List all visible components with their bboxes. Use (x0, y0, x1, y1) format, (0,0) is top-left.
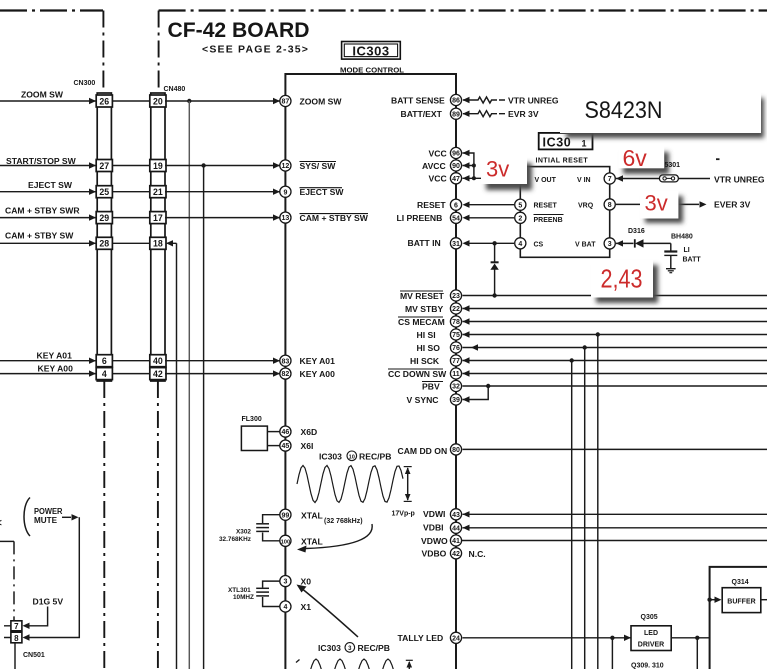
svg-text:43: 43 (452, 512, 460, 519)
connector CN300 pin 29 (96, 212, 112, 224)
svg-text:IC303: IC303 (318, 643, 341, 653)
svg-text:CN480: CN480 (164, 86, 186, 93)
pin 24 TALLY LED (398, 632, 462, 643)
label EVR 3V net (508, 109, 539, 119)
IC301 pin 7 V IN (604, 173, 615, 184)
wire CAM + STBY SWR row (0, 214, 280, 220)
svg-text:13: 13 (282, 215, 290, 222)
curved arrow to pin 100 (297, 524, 372, 553)
label 32 768kHz (324, 518, 363, 525)
label EJECT SW (28, 180, 73, 190)
svg-text:6: 6 (454, 202, 458, 209)
IC301 inner label PREENB overlined (534, 215, 564, 224)
waveform sine at XTAL (297, 466, 403, 503)
svg-text:31: 31 (452, 241, 460, 248)
wire CAM DD ON row (463, 448, 767, 450)
annotation patch 2,43 (591, 260, 658, 303)
annotation patch S8423N (560, 92, 764, 138)
svg-text:29: 29 (99, 213, 109, 223)
svg-text:2: 2 (518, 215, 522, 222)
svg-text:LED: LED (644, 630, 658, 637)
svg-text:AVCC: AVCC (422, 161, 446, 171)
ground at battery (666, 269, 676, 273)
svg-text:RESET: RESET (417, 200, 446, 210)
IC301 pin 3 V BAT (604, 238, 615, 249)
svg-text:4: 4 (102, 369, 107, 379)
svg-text:CS: CS (534, 242, 544, 249)
svg-text:CN501: CN501 (23, 652, 45, 659)
svg-text:VCC: VCC (429, 148, 447, 158)
wire POWER MUTE drop to CN501 pin 8 (23, 517, 80, 640)
connector CN300 pin 26 (96, 95, 112, 107)
pin 96 VCC (429, 147, 470, 158)
wire drop from TALLY junction 1 (611, 638, 613, 669)
svg-text:10: 10 (349, 454, 355, 460)
wire fuse to VTR UNREG (678, 178, 710, 180)
wire left edge to dashed drop (0, 540, 14, 542)
wire HI SCK row (463, 357, 767, 363)
IC301 inner label VRQ (578, 203, 594, 210)
wire MV STBY row (463, 305, 767, 311)
pin 99 XTAL (280, 509, 323, 520)
connector CN480 pin 21 (150, 186, 166, 198)
annotation patch 3v at V OUT (481, 157, 532, 191)
pin 100 XTAL (280, 535, 323, 546)
pin 46 X6D (280, 426, 317, 437)
label KEY A00 (38, 364, 74, 374)
svg-text:SYS/ SW: SYS/ SW (300, 161, 337, 171)
svg-text:10MHZ: 10MHZ (233, 594, 254, 601)
connector CN300 pin 4 (96, 368, 112, 380)
svg-text:PREENB: PREENB (534, 217, 563, 224)
svg-text:IC303: IC303 (319, 452, 342, 462)
wire bus drop from HI SO (584, 348, 586, 669)
svg-text:100: 100 (281, 539, 291, 545)
arrow from REC/PB note to pin 3 (297, 585, 359, 638)
svg-text:HI SO: HI SO (417, 343, 441, 353)
svg-text:FL300: FL300 (242, 416, 262, 423)
wire into BUFFER (710, 597, 722, 603)
wire IC301 pin2 to IC303 pin54 (470, 217, 515, 219)
connector CN501 pin 7 (11, 621, 22, 631)
svg-text:VTR UNREG: VTR UNREG (508, 95, 559, 105)
svg-text:V SYNC: V SYNC (407, 395, 439, 405)
svg-text:40: 40 (153, 356, 163, 366)
pin 9 EJECT SW (280, 186, 345, 197)
diode D317 between CS line and MV RESET line (490, 243, 498, 295)
svg-text:EJECT SW: EJECT SW (300, 187, 345, 197)
svg-text:D1G 5V: D1G 5V (33, 597, 64, 607)
IC303 designator box (342, 42, 401, 60)
svg-text:8: 8 (14, 634, 19, 643)
wire below CN501 (14, 643, 16, 669)
resistor at BATT SENSE (463, 97, 505, 103)
label Q314 (732, 579, 749, 586)
connector CN501 pin 8 (11, 632, 22, 643)
svg-text:4: 4 (283, 604, 287, 611)
wire CC DOWN SW row (463, 370, 767, 376)
svg-text:3: 3 (283, 579, 287, 586)
svg-text:CN300: CN300 (74, 80, 96, 87)
wire DIG 5V to CN501 pin 7 (23, 607, 48, 630)
svg-text:VDBI: VDBI (423, 523, 444, 533)
connector CN300 label (74, 80, 96, 87)
svg-text:V BAT: V BAT (575, 242, 596, 249)
svg-text:21: 21 (153, 187, 163, 197)
svg-text:VDBO: VDBO (422, 549, 447, 559)
svg-text:CAM + STBY SW: CAM + STBY SW (5, 231, 74, 241)
svg-text:XTAL: XTAL (301, 511, 323, 521)
svg-text:32.768KHz: 32.768KHz (219, 536, 251, 543)
svg-text:V IN: V IN (577, 177, 591, 184)
measure arrow bottom partial (406, 660, 413, 669)
svg-text:42: 42 (452, 551, 460, 558)
connector CN480 pin 18 (150, 237, 166, 249)
title CF-42 BOARD (168, 19, 310, 42)
svg-text:11: 11 (452, 371, 460, 378)
svg-text:4: 4 (518, 241, 522, 248)
pin 77 HI SCK (410, 355, 462, 366)
pin 32 PBV (422, 380, 462, 391)
pin 43 VDWI (423, 509, 462, 520)
label ZOOM SW (21, 90, 64, 100)
svg-text:46: 46 (282, 429, 290, 436)
svg-text:54: 54 (452, 215, 460, 222)
svg-text:20: 20 (153, 96, 163, 106)
pin 39 V SYNC (407, 394, 462, 405)
wire LED DRIVER output (671, 636, 709, 640)
pin 31 BATT IN (408, 238, 470, 249)
bracket for POWER MUTE (24, 498, 30, 537)
wire START/STOP SW row (0, 162, 280, 168)
transistor block Q305 LED DRIVER (631, 626, 671, 651)
svg-text:D316: D316 (628, 228, 645, 235)
connector CN300 pin 6 (96, 355, 112, 367)
wire bus drop from HI SCK (571, 361, 573, 669)
svg-text:REC/PB: REC/PB (359, 452, 391, 462)
stray mark before bottom waveform (296, 660, 300, 663)
connector CN300 body (97, 93, 111, 381)
svg-text:78: 78 (452, 319, 460, 326)
IC301 designator box (539, 133, 593, 150)
IC301 inner label CS (534, 242, 544, 249)
svg-text:41: 41 (452, 538, 460, 545)
svg-text:CAM + STBY SW: CAM + STBY SW (300, 213, 369, 223)
svg-text:TALLY LED: TALLY LED (398, 633, 444, 643)
junction ZOOM SW to drop wire (187, 99, 191, 103)
svg-text:Q314: Q314 (732, 579, 749, 586)
svg-text:N.C.: N.C. (469, 549, 486, 559)
connector CN300 pin 28 (96, 237, 112, 249)
svg-text:45: 45 (282, 443, 290, 450)
pin 47 VCC (429, 173, 470, 184)
label FL300 (242, 416, 262, 423)
svg-text:VDWO: VDWO (421, 536, 448, 546)
pin 3 X0 (280, 576, 311, 587)
svg-text:CAM + STBY SWR: CAM + STBY SWR (5, 206, 80, 216)
svg-text:PBV: PBV (422, 381, 440, 391)
svg-text:44: 44 (452, 525, 460, 532)
wire IC301 pin4 to IC303 pin31 (470, 241, 515, 245)
label CN501 (23, 652, 45, 659)
svg-text:3v: 3v (645, 191, 668, 216)
svg-text:BATT SENSE: BATT SENSE (391, 95, 445, 105)
crystal X302 (256, 515, 280, 541)
pin 76 HI SO (417, 342, 462, 353)
svg-text:1: 1 (582, 139, 587, 149)
svg-text:BATT/EXT: BATT/EXT (401, 109, 443, 119)
svg-text:Q305: Q305 (641, 614, 658, 621)
resistor at BATT/EXT (463, 111, 505, 117)
wire HI SI row (463, 331, 767, 337)
svg-text:83: 83 (282, 358, 290, 365)
svg-text:26: 26 (99, 96, 109, 106)
wire drop from ZOOM SW junction (188, 101, 190, 669)
wire drop from CAM + STBY SW corner (176, 243, 178, 669)
wire VDWI row (463, 511, 767, 517)
label D316 (628, 228, 645, 235)
svg-text:ZOOM SW: ZOOM SW (21, 90, 64, 100)
pin 44 VDBI (423, 522, 462, 533)
annotation patch 6v at V IN (619, 145, 670, 174)
svg-text:87: 87 (282, 99, 290, 106)
connector CN480 pin 42 (150, 368, 166, 380)
svg-text:XTAL: XTAL (301, 537, 323, 547)
svg-text:REC/PB: REC/PB (358, 643, 390, 653)
label S301 fuse designator (665, 162, 681, 169)
svg-text:KEY A01: KEY A01 (300, 356, 336, 366)
svg-text:22: 22 (452, 306, 460, 313)
svg-text:28: 28 (99, 239, 109, 249)
partial glyphs at left edge (0, 506, 2, 529)
svg-text:9: 9 (283, 189, 287, 196)
svg-text:VDWI: VDWI (423, 509, 445, 519)
svg-text:VCC: VCC (429, 174, 447, 184)
label START/STOP SW (6, 156, 77, 166)
wire POWER MUTE arrow to drop (62, 514, 79, 520)
junction SYS SW to drop wire (201, 163, 205, 167)
measure arrow 17Vp-p (404, 467, 412, 502)
wire PBV row (463, 384, 767, 388)
svg-text:START/STOP SW: START/STOP SW (6, 156, 77, 166)
svg-text:X6D: X6D (301, 427, 318, 437)
pin 83 KEY A01 (280, 355, 335, 366)
svg-text:76: 76 (452, 345, 460, 352)
subtitle SEE PAGE 2-35 (202, 44, 309, 56)
label LI BATT (683, 247, 702, 264)
wire V IN to fuse S301 (616, 175, 659, 181)
svg-text:19: 19 (153, 161, 163, 171)
svg-text:75: 75 (452, 332, 460, 339)
junction on sub-board edge (707, 598, 711, 602)
pin 41 VDWO (421, 535, 462, 546)
svg-text:23: 23 (452, 293, 460, 300)
label CAM + STBY SW (5, 231, 74, 241)
board boundary left board vertical chain line below CN300 (103, 381, 105, 669)
label VTR UNREG net (508, 95, 559, 105)
svg-text:LI PREENB: LI PREENB (397, 213, 443, 223)
wire V SYNC to PBV junction (463, 386, 489, 403)
pin 13 CAM + STBY SW (280, 212, 369, 223)
wire BUFFER output (761, 599, 767, 601)
connector CN480 pin 20 (150, 95, 166, 107)
board boundary CF-42 vertical chain line below CN480 (157, 381, 159, 669)
connector CN300 pin 25 (96, 186, 112, 198)
svg-text:IC303: IC303 (352, 43, 389, 58)
svg-text:V OUT: V OUT (535, 177, 557, 184)
pin 89 BATT/EXT (401, 108, 470, 119)
svg-text:CF-42 BOARD: CF-42 BOARD (168, 19, 310, 42)
svg-text:LI: LI (684, 247, 690, 254)
svg-text:96: 96 (452, 151, 460, 158)
svg-text:18: 18 (153, 239, 163, 249)
svg-text:32: 32 (452, 384, 460, 391)
wire HI SO row (463, 344, 767, 350)
wire VCC bus to IC301 V OUT (463, 153, 521, 180)
svg-text:7: 7 (608, 176, 612, 183)
svg-text:3: 3 (348, 646, 352, 652)
pin 54 L1 PREENB (397, 212, 470, 223)
op-amp/IC IC303 body outline (285, 74, 456, 669)
svg-text:MV RESET: MV RESET (400, 291, 445, 301)
svg-text:VTR UNREG: VTR UNREG (714, 174, 765, 184)
pin 90 AVCC (422, 160, 470, 171)
fuse S301 (659, 175, 678, 182)
svg-text:RESET: RESET (534, 203, 558, 210)
connector CN480 label (164, 86, 186, 93)
svg-text:80: 80 (452, 447, 460, 454)
svg-text:KEY A01: KEY A01 (37, 351, 73, 361)
svg-text:BH480: BH480 (671, 233, 693, 240)
label POWER MUTE (34, 506, 63, 525)
pin 80 CAM DD ON (398, 444, 462, 456)
svg-text:27: 27 (99, 161, 109, 171)
svg-text:99: 99 (282, 512, 290, 519)
note IC303 pin10 REC/PB (319, 451, 391, 462)
connector CN480 pin 40 (150, 355, 166, 367)
svg-text:12: 12 (282, 163, 290, 170)
pin 45 X6I (280, 440, 314, 451)
wire FL300 to pin 46 (267, 431, 280, 433)
svg-text:EJECT SW: EJECT SW (28, 180, 73, 190)
svg-text:8: 8 (608, 202, 612, 209)
IC301 inner label V BAT (575, 242, 596, 249)
board boundary left board vertical chain line (102, 11, 104, 94)
crystal XTL301 (256, 581, 280, 606)
pin 78 CS MECAM (398, 316, 462, 327)
svg-text:17Vp-p: 17Vp-p (392, 511, 415, 518)
svg-text:(32 768kHz): (32 768kHz) (324, 518, 363, 525)
svg-text:KEY A00: KEY A00 (300, 369, 336, 379)
label X302 32.768KHz (219, 529, 251, 543)
wire KEY A00 row (0, 370, 280, 376)
wire IC301 pin5 to IC303 pin6 (470, 204, 515, 206)
label BH480 (671, 233, 693, 240)
pin 4 X1 (280, 601, 311, 612)
wire CAM + STBY SW row into CN480 pin 18 (0, 240, 177, 246)
svg-text:MV STBY: MV STBY (405, 304, 443, 314)
svg-text:24: 24 (452, 635, 460, 642)
IC301 pin 2 PREENB (515, 212, 526, 223)
svg-text:BUFFER: BUFFER (727, 599, 755, 606)
stray mark right of 6v patch (716, 158, 720, 160)
label EVER 3V net (714, 200, 751, 210)
svg-text:86: 86 (452, 98, 460, 105)
svg-text:CS MECAM: CS MECAM (398, 317, 445, 327)
svg-text:X1: X1 (301, 602, 312, 612)
svg-text:X0: X0 (301, 576, 312, 586)
label INTIAL RESET (536, 157, 589, 164)
wire stubs left of CN501 (4, 626, 11, 638)
pin 87 ZOOM SW (280, 95, 343, 106)
wire KEY A01 row (0, 358, 280, 364)
pin 86 BATT SENSE (391, 94, 470, 105)
IC301 inner label V OUT (535, 177, 557, 184)
svg-text:25: 25 (99, 187, 109, 197)
svg-text:MUTE: MUTE (34, 515, 57, 525)
svg-text:5301: 5301 (665, 162, 681, 169)
svg-text:<: < (0, 518, 2, 529)
svg-text:INTIAL RESET: INTIAL RESET (536, 157, 589, 164)
svg-text:EVER 3V: EVER 3V (714, 200, 751, 210)
svg-text:6v: 6v (623, 145, 648, 171)
svg-text:KEY A00: KEY A00 (38, 364, 74, 374)
pin 6 RESET (417, 199, 470, 210)
svg-text:S8423N: S8423N (585, 97, 663, 124)
wire dashed drop to CN501 pin 7 (13, 541, 15, 620)
connector CN300 pin 27 (96, 160, 112, 172)
IC301 pin 8 VRQ (604, 199, 615, 210)
wire VDBI row (463, 525, 767, 531)
svg-text:CC DOWN SW: CC DOWN SW (388, 369, 447, 379)
connector CN480 pin 19 (150, 160, 166, 172)
wire drop from TALLY junction 2 (696, 638, 698, 669)
pin 11 CC DOWN SW (388, 368, 462, 379)
svg-text:VRQ: VRQ (578, 203, 594, 210)
diode D316 (616, 239, 671, 247)
svg-text:77: 77 (452, 358, 460, 365)
svg-text:90: 90 (452, 163, 460, 170)
label MODE CONTROL (340, 66, 405, 75)
label Q305 (641, 614, 658, 621)
wire FL300 to pin 45 (267, 445, 280, 447)
wire CS MECAM row (463, 318, 767, 324)
label VTR UNREG net right (714, 174, 765, 184)
sub-board outline right bottom (710, 567, 767, 669)
label Q309 310 (631, 663, 664, 669)
note IC303 pin3 REC/PB (318, 643, 390, 653)
annotation patch 3v at VRQ (640, 191, 683, 224)
IC301 body outline (520, 167, 609, 258)
IC301 pin 4 CS (515, 238, 526, 249)
label KEY A01 (37, 351, 73, 361)
svg-text:3: 3 (608, 241, 612, 248)
svg-text:<SEE PAGE 2-35>: <SEE PAGE 2-35> (202, 44, 309, 56)
board boundary left board top chain line (0, 9, 103, 11)
svg-text:ZOOM SW: ZOOM SW (300, 96, 343, 106)
IC301 inner label RESET (534, 203, 558, 210)
svg-text:X6I: X6I (301, 441, 314, 451)
svg-text:39: 39 (452, 397, 460, 404)
label 17Vp-p (392, 511, 415, 518)
svg-text:17: 17 (153, 213, 163, 223)
label CAM + STBY SWR (5, 206, 80, 216)
pin 42 VDBO N.C. (422, 548, 486, 559)
svg-text:7: 7 (14, 622, 19, 631)
wire MV RESET row (463, 293, 767, 297)
svg-text:HI SI: HI SI (417, 330, 436, 340)
board boundary CF-42 top chain line (159, 9, 767, 11)
